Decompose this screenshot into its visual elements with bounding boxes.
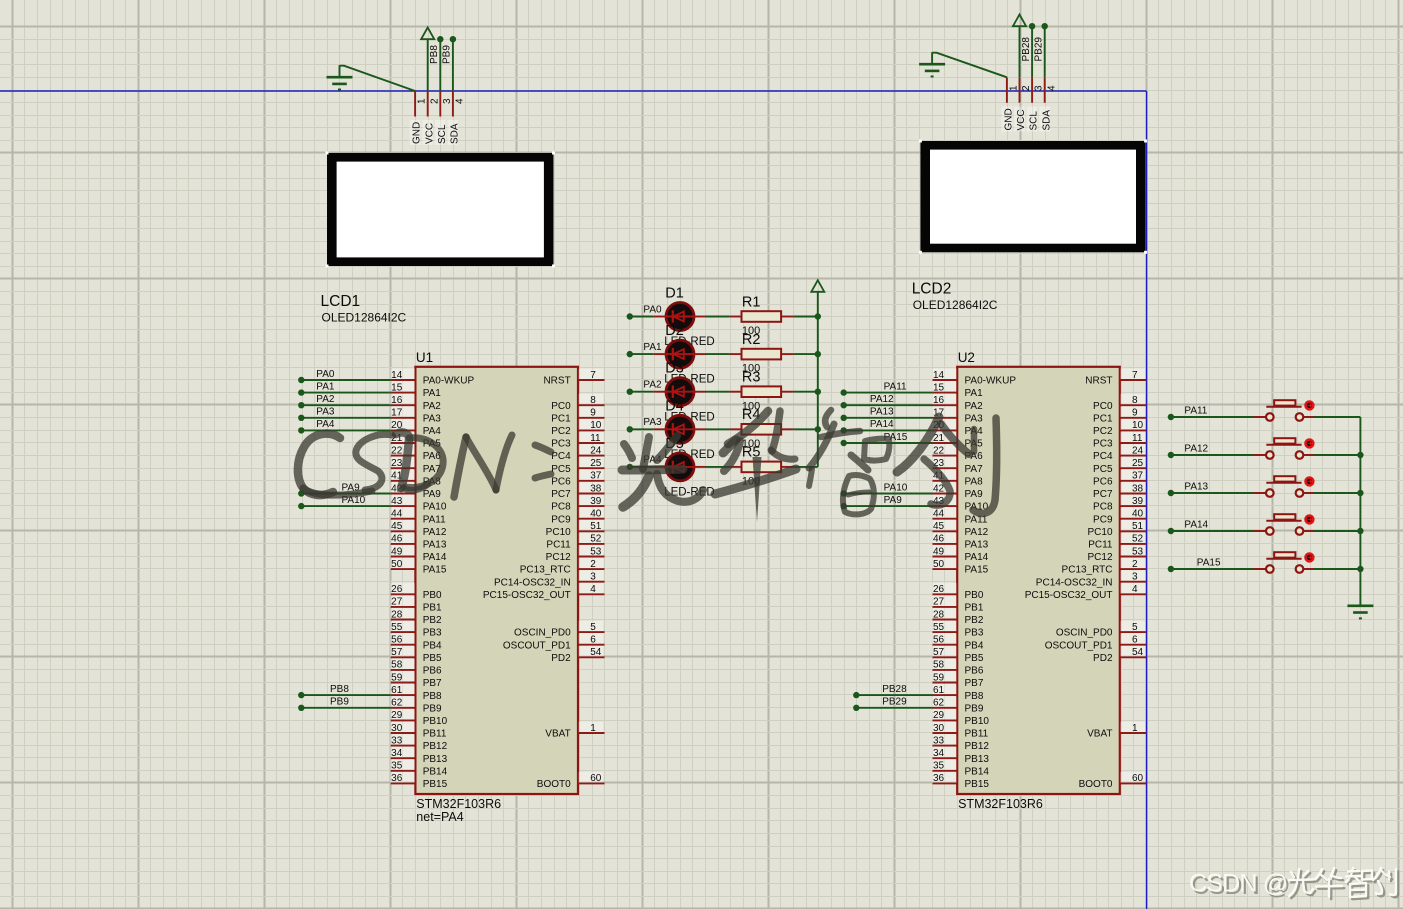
svg-text:CSDN @: CSDN @ — [1189, 870, 1287, 898]
U1 pin 17 PA3 — [390, 407, 441, 425]
U2 pin 9 PC1 — [1093, 407, 1146, 425]
svg-text:OLED12864I2C: OLED12864I2C — [322, 311, 407, 325]
U2 pin 3 PC14-OSC32_IN — [1036, 570, 1147, 588]
svg-text:PB4: PB4 — [965, 640, 984, 651]
wire net PA10 to U1 — [298, 503, 391, 509]
svg-text:PB1: PB1 — [423, 603, 442, 614]
U1 pin 9 PC1 — [551, 407, 604, 425]
svg-text:43: 43 — [391, 496, 403, 507]
svg-text:PA3: PA3 — [423, 413, 442, 424]
ground symbol (buttons) — [1347, 606, 1373, 619]
svg-text:PB8: PB8 — [965, 691, 984, 702]
wire net PA1 to U1 — [298, 389, 391, 395]
svg-text:36: 36 — [391, 773, 403, 784]
svg-text:51: 51 — [590, 521, 602, 532]
U2 pin 27 PB1 — [932, 596, 984, 614]
svg-text:4: 4 — [1132, 584, 1138, 595]
U2 pin 41 PA8 — [932, 470, 983, 488]
U2 pin 56 PB4 — [932, 633, 984, 651]
U1 pin 52 PC11 — [546, 533, 604, 551]
U1 pin 40 PC9 — [551, 507, 604, 525]
U1 pin 4 PC15-OSC32_OUT — [483, 583, 605, 601]
svg-text:26: 26 — [391, 584, 403, 595]
svg-text:57: 57 — [933, 647, 945, 658]
svg-text:U1: U1 — [416, 350, 433, 365]
svg-text:PA11: PA11 — [423, 514, 446, 525]
ground symbol near pin 1 — [327, 65, 353, 89]
svg-text:PB0: PB0 — [423, 590, 442, 601]
svg-text:34: 34 — [391, 748, 403, 759]
svg-text:3: 3 — [590, 572, 596, 583]
resistor R4 100 ohm — [706, 424, 793, 435]
U2 pin 45 PA12 — [932, 520, 989, 538]
svg-text:PB12: PB12 — [423, 741, 448, 752]
svg-text:5: 5 — [1132, 622, 1138, 633]
U1 pin 60 BOOT0 — [537, 772, 605, 790]
wire net PA14 to U2 — [841, 427, 933, 433]
U1 pin 23 PA7 — [390, 457, 441, 475]
svg-text:25: 25 — [590, 458, 602, 469]
svg-text:7: 7 — [590, 370, 596, 381]
U2 pin 61 PB8 — [932, 684, 984, 702]
U2 pin 6 OSCOUT_PD1 — [1045, 633, 1147, 651]
svg-text:51: 51 — [1132, 521, 1144, 532]
LCD pin 4 SDA — [1039, 77, 1057, 131]
svg-text:49: 49 — [933, 546, 945, 557]
svg-text:3: 3 — [1132, 572, 1138, 583]
svg-text:56: 56 — [933, 635, 945, 646]
svg-text:PB3: PB3 — [423, 628, 442, 639]
svg-text:PB15: PB15 — [965, 779, 990, 790]
wire net PB8 to U1 — [298, 692, 391, 698]
svg-text:PA12: PA12 — [1184, 444, 1208, 455]
svg-text:PB5: PB5 — [423, 653, 442, 664]
svg-text:30: 30 — [391, 723, 403, 734]
U1 pin 14 PA0-WKUP — [390, 369, 474, 387]
svg-text:PB29: PB29 — [882, 697, 907, 708]
LCD pin 4 SDA — [448, 91, 466, 145]
svg-text:PC11: PC11 — [1088, 540, 1113, 551]
svg-text:60: 60 — [1132, 773, 1144, 784]
resistor R2 100 ohm — [706, 349, 793, 360]
U2 pin 52 PC11 — [1088, 533, 1146, 551]
svg-text:PA10: PA10 — [423, 502, 447, 513]
svg-text:PB10: PB10 — [965, 716, 990, 727]
button operate marker (red) — [1306, 440, 1314, 448]
U1 pin 57 PB5 — [390, 646, 442, 664]
svg-text:PA1: PA1 — [643, 342, 662, 353]
svg-text:VCC: VCC — [424, 123, 435, 144]
U1 pin 39 PC8 — [551, 495, 604, 513]
svg-text:PA13: PA13 — [965, 540, 989, 551]
svg-text:9: 9 — [1132, 408, 1138, 419]
U2 pin 5 OSCIN_PD0 — [1056, 621, 1146, 639]
svg-text:58: 58 — [933, 660, 945, 671]
svg-text:PC2: PC2 — [1093, 426, 1113, 437]
U1 pin 51 PC10 — [546, 520, 605, 538]
U2 pin 40 PC9 — [1093, 507, 1146, 525]
svg-text:PC8: PC8 — [1093, 502, 1113, 513]
LCD pin 1 GND — [410, 91, 428, 145]
svg-text:PC9: PC9 — [1093, 514, 1113, 525]
svg-text:46: 46 — [391, 534, 403, 545]
svg-text:PC9: PC9 — [551, 514, 571, 525]
U1 pin 56 PB4 — [390, 633, 442, 651]
svg-text:15: 15 — [933, 382, 945, 393]
wire resistor R1 to power bus — [793, 313, 821, 319]
push button (PA15) — [1253, 552, 1317, 573]
svg-text:2: 2 — [429, 98, 440, 104]
U2 pin 29 PB10 — [932, 709, 989, 727]
U2 pin 22 PA6 — [932, 444, 983, 462]
wire net PA12 to U2 — [841, 402, 933, 408]
svg-text:PA1: PA1 — [423, 388, 442, 399]
svg-text:GND: GND — [1004, 108, 1015, 130]
svg-text:24: 24 — [1132, 445, 1144, 456]
svg-text:PA9: PA9 — [965, 489, 984, 500]
U1 pin 16 PA2 — [390, 394, 441, 412]
svg-text:2: 2 — [590, 559, 596, 570]
U1 pin 6 OSCOUT_PD1 — [503, 633, 605, 651]
power terminal (VCC arrow) — [421, 28, 434, 92]
U1 pin 11 PC3 — [551, 432, 604, 450]
svg-text:54: 54 — [590, 647, 602, 658]
svg-text:PB13: PB13 — [423, 754, 448, 765]
svg-text:PA14: PA14 — [870, 419, 894, 430]
svg-text:PC10: PC10 — [546, 527, 571, 538]
U1 pin 50 PA15 — [390, 558, 447, 576]
svg-text:6: 6 — [590, 635, 596, 646]
svg-text:45: 45 — [933, 521, 945, 532]
svg-text:PA3: PA3 — [965, 413, 984, 424]
svg-text:55: 55 — [391, 622, 403, 633]
button operate marker (red) — [1306, 554, 1314, 562]
svg-text:D3: D3 — [665, 361, 684, 377]
svg-text:OSCIN_PD0: OSCIN_PD0 — [1056, 628, 1113, 639]
svg-text:38: 38 — [590, 483, 602, 494]
svg-text:PA15: PA15 — [423, 565, 447, 576]
svg-text:PC12: PC12 — [1087, 552, 1112, 563]
svg-text:22: 22 — [391, 445, 403, 456]
svg-text:SDA: SDA — [1041, 110, 1052, 131]
svg-text:PC15-OSC32_OUT: PC15-OSC32_OUT — [483, 590, 571, 601]
svg-text:PC8: PC8 — [551, 502, 571, 513]
LCD pin 2 VCC — [422, 91, 440, 145]
wire net PA4 to LED D5 — [627, 464, 654, 470]
U2 pin 57 PB5 — [932, 646, 984, 664]
power terminal (VCC arrow) — [1013, 15, 1026, 78]
wire net PA13 to U2 — [841, 415, 933, 421]
U1 pin 8 PC0 — [551, 394, 604, 412]
wire resistor R2 to power bus — [793, 351, 821, 357]
U1 pin 1 VBAT — [545, 722, 604, 740]
svg-text:PB12: PB12 — [965, 741, 990, 752]
ground symbol near pin 1 — [919, 52, 945, 76]
U2 pin 10 PC2 — [1093, 419, 1146, 437]
svg-text:PB8: PB8 — [330, 684, 349, 695]
U2 pin 43 PA10 — [932, 495, 989, 513]
wire net PA15 to U2 — [841, 440, 933, 446]
svg-text:STM32F103R6: STM32F103R6 — [416, 797, 501, 811]
LCD pin 3 SCL — [1027, 77, 1045, 131]
svg-text:PC5: PC5 — [1093, 464, 1113, 475]
svg-text:11: 11 — [1132, 433, 1143, 444]
U1 pin 35 PB14 — [390, 760, 447, 778]
U1 pin 41 PA8 — [390, 470, 441, 488]
wire net PA14 to button — [1168, 528, 1254, 534]
svg-text:39: 39 — [1132, 496, 1144, 507]
U1 pin 15 PA1 — [390, 381, 441, 399]
wire button to ground bus — [1314, 528, 1364, 534]
svg-text:STM32F103R6: STM32F103R6 — [958, 797, 1043, 811]
svg-text:52: 52 — [590, 534, 602, 545]
svg-text:35: 35 — [933, 761, 945, 772]
svg-text:PB10: PB10 — [423, 716, 448, 727]
svg-text:PB11: PB11 — [965, 729, 989, 740]
svg-text:PA8: PA8 — [965, 476, 984, 487]
svg-text:PC3: PC3 — [551, 439, 571, 450]
svg-text:30: 30 — [933, 723, 945, 734]
svg-text:11: 11 — [590, 433, 601, 444]
svg-text:50: 50 — [933, 559, 945, 570]
U1 pin 5 OSCIN_PD0 — [514, 621, 604, 639]
svg-text:PC0: PC0 — [551, 401, 571, 412]
U1 pin 49 PA14 — [390, 545, 447, 563]
svg-text:62: 62 — [391, 698, 403, 709]
wire net PA0 to U1 — [298, 377, 391, 383]
svg-text:R2: R2 — [742, 332, 761, 348]
svg-text:PB15: PB15 — [423, 779, 448, 790]
U1 pin 22 PA6 — [390, 444, 441, 462]
svg-text:PB9: PB9 — [330, 697, 349, 708]
svg-text:PC14-OSC32_IN: PC14-OSC32_IN — [494, 577, 571, 588]
wire net PA0 to LED D1 — [627, 313, 654, 319]
U1 pin 38 PC7 — [551, 482, 604, 500]
svg-text:2: 2 — [1021, 85, 1032, 91]
svg-text:2: 2 — [1132, 559, 1138, 570]
svg-text:PC1: PC1 — [1093, 413, 1113, 424]
svg-text:40: 40 — [590, 509, 602, 520]
svg-text:8: 8 — [590, 395, 596, 406]
svg-text:PB6: PB6 — [423, 666, 442, 677]
svg-text:PA14: PA14 — [423, 552, 447, 563]
svg-text:PB1: PB1 — [965, 603, 984, 614]
wire net PA9 to U2 — [841, 503, 933, 509]
U2 pin 24 PC4 — [1093, 444, 1146, 462]
svg-text:NRST: NRST — [1085, 376, 1112, 387]
svg-text:PC1: PC1 — [551, 413, 571, 424]
svg-text:BOOT0: BOOT0 — [537, 779, 571, 790]
svg-text:PC13_RTC: PC13_RTC — [520, 565, 571, 576]
wire resistor R4 to power bus — [793, 426, 821, 432]
U1 pin 58 PB6 — [390, 659, 442, 677]
svg-text:PA0: PA0 — [643, 304, 662, 315]
U1 pin 45 PA12 — [390, 520, 447, 538]
U1 pin 29 PB10 — [390, 709, 447, 727]
wire net PB28 to U2 — [853, 692, 932, 698]
svg-text:PA0-WKUP: PA0-WKUP — [965, 376, 1017, 387]
wire net PA9 to U1 — [298, 490, 391, 496]
wire net PA2 to LED D3 — [627, 389, 654, 395]
wire resistor R3 to power bus — [793, 389, 821, 395]
svg-text:1: 1 — [1009, 85, 1020, 91]
U1 pin 37 PC6 — [551, 470, 604, 488]
svg-text:PB8: PB8 — [423, 691, 442, 702]
LCD display LCD1 (OLED12864I2C) — [326, 152, 556, 268]
svg-text:33: 33 — [933, 735, 945, 746]
svg-text:23: 23 — [391, 458, 403, 469]
svg-text:PA14: PA14 — [965, 552, 989, 563]
wire net PA3 to LED D4 — [627, 426, 654, 432]
U2 pin 17 PA3 — [932, 407, 983, 425]
svg-text:PC7: PC7 — [551, 489, 571, 500]
wire net PA1 to LED D2 — [627, 351, 654, 357]
svg-text:LCD1: LCD1 — [321, 293, 361, 310]
U2 pin 1 VBAT — [1087, 722, 1146, 740]
wire button to ground bus — [1314, 416, 1361, 418]
svg-text:PC2: PC2 — [551, 426, 571, 437]
U2 pin 46 PA13 — [932, 533, 989, 551]
svg-text:4: 4 — [455, 98, 466, 104]
wire PB8 to LCD pin 3 (SCL) — [437, 36, 443, 91]
U1 pin 43 PA10 — [390, 495, 447, 513]
U1 pin 7 NRST — [543, 369, 604, 387]
U2 pin 23 PA7 — [932, 457, 983, 475]
button operate marker (red) — [1306, 478, 1314, 486]
svg-text:PB8: PB8 — [429, 45, 440, 64]
svg-text:PC4: PC4 — [1093, 451, 1113, 462]
U2 pin 37 PC6 — [1093, 470, 1146, 488]
svg-text:R1: R1 — [742, 294, 761, 310]
U1 pin 30 PB11 — [390, 722, 447, 740]
svg-text:14: 14 — [933, 370, 945, 381]
svg-text:PA1: PA1 — [965, 388, 984, 399]
U2 pin 59 PB7 — [932, 671, 984, 689]
U1 pin 54 PD2 — [551, 646, 604, 664]
svg-text:54: 54 — [1132, 647, 1144, 658]
U1 pin 61 PB8 — [390, 684, 442, 702]
U2 pin 38 PC7 — [1093, 482, 1146, 500]
svg-text:PA11: PA11 — [884, 381, 907, 392]
U2 pin 58 PB6 — [932, 659, 984, 677]
svg-text:D4: D4 — [665, 398, 684, 414]
svg-text:52: 52 — [1132, 534, 1144, 545]
vertical power bus wire — [817, 292, 819, 467]
svg-text:PB0: PB0 — [965, 590, 984, 601]
U1 pin 55 PB3 — [390, 621, 442, 639]
svg-text:PB5: PB5 — [965, 653, 984, 664]
U2 pin 42 PA9 — [932, 482, 983, 500]
svg-text:56: 56 — [391, 635, 403, 646]
U2 pin 28 PB2 — [932, 608, 984, 626]
U1 pin 36 PB15 — [390, 772, 447, 790]
svg-text:37: 37 — [1132, 471, 1144, 482]
svg-text:58: 58 — [391, 660, 403, 671]
svg-text:PA12: PA12 — [965, 527, 989, 538]
wire net PA11 to button — [1168, 414, 1254, 420]
svg-text:PB9: PB9 — [423, 703, 442, 714]
wire button to ground bus — [1314, 452, 1364, 458]
svg-text:57: 57 — [391, 647, 403, 658]
svg-text:9: 9 — [590, 408, 596, 419]
LCD pin 2 VCC — [1014, 77, 1032, 131]
U1 pin 24 PC4 — [551, 444, 604, 462]
svg-text:59: 59 — [391, 672, 403, 683]
svg-text:PA3: PA3 — [643, 417, 662, 428]
svg-text:1: 1 — [417, 98, 428, 104]
svg-text:7: 7 — [1132, 370, 1138, 381]
vertical ground bus wire (buttons) — [1359, 417, 1361, 606]
U1 pin 62 PB9 — [390, 697, 442, 715]
U2 pin 36 PB15 — [932, 772, 989, 790]
LED D2 (LED-RED) — [653, 340, 706, 368]
push button (PA12) — [1253, 438, 1317, 459]
U2 pin 2 PC13_RTC — [1062, 558, 1147, 576]
svg-text:PA15: PA15 — [965, 565, 989, 576]
wire PB29 to LCD pin 4 (SDA) — [1042, 23, 1048, 77]
svg-text:PB14: PB14 — [965, 766, 990, 777]
U2 pin 8 PC0 — [1093, 394, 1146, 412]
svg-text:PA0-WKUP: PA0-WKUP — [423, 376, 475, 387]
svg-text:PA12: PA12 — [423, 527, 447, 538]
U1 pin 3 PC14-OSC32_IN — [494, 570, 605, 588]
svg-text:net=PA4: net=PA4 — [416, 810, 463, 824]
svg-text:PA1: PA1 — [316, 381, 335, 392]
svg-text:26: 26 — [933, 584, 945, 595]
power terminal (VCC arrow) for LED ladder — [811, 280, 824, 292]
watermark: CSDN @ guang hua zhi chuang (bottom right, embossed) — [1189, 870, 1290, 900]
watermark: CSDN : guang hua zhi chuang (calligraphy overlay) — [298, 410, 997, 522]
svg-text:62: 62 — [933, 698, 945, 709]
svg-text:PB4: PB4 — [423, 640, 442, 651]
svg-text:PD2: PD2 — [1093, 653, 1113, 664]
svg-text:39: 39 — [590, 496, 602, 507]
svg-text:SDA: SDA — [450, 123, 461, 144]
svg-text:PB11: PB11 — [423, 729, 447, 740]
svg-text:PA4: PA4 — [423, 426, 442, 437]
svg-text:PC6: PC6 — [1093, 476, 1113, 487]
svg-text:40: 40 — [1132, 509, 1144, 520]
U2 pin 4 PC15-OSC32_OUT — [1025, 583, 1147, 601]
svg-text:PB7: PB7 — [423, 678, 442, 689]
svg-text:46: 46 — [933, 534, 945, 545]
svg-text:PA7: PA7 — [965, 464, 984, 475]
push button (PA13) — [1253, 476, 1317, 497]
wire net PA13 to button — [1168, 490, 1254, 496]
svg-text:VBAT: VBAT — [545, 729, 570, 740]
svg-text:PC15-OSC32_OUT: PC15-OSC32_OUT — [1025, 590, 1113, 601]
svg-text:50: 50 — [391, 559, 403, 570]
wire net PB9 to U1 — [298, 705, 391, 711]
svg-text:PA2: PA2 — [316, 394, 335, 405]
svg-text:NRST: NRST — [543, 376, 570, 387]
U1 pin 33 PB12 — [390, 734, 447, 752]
wire: ground to LCD pin 1 (GND) — [932, 53, 1007, 78]
svg-text:U2: U2 — [958, 350, 975, 365]
svg-text:35: 35 — [391, 761, 403, 772]
svg-text:3: 3 — [442, 98, 453, 104]
svg-text:44: 44 — [933, 509, 945, 520]
LED D4 (LED-RED) — [653, 415, 706, 443]
microcontroller U1 STM32F103R6 body — [415, 367, 578, 794]
svg-text:PD2: PD2 — [551, 653, 571, 664]
svg-text:PC12: PC12 — [546, 552, 571, 563]
U2 pin 50 PA15 — [932, 558, 989, 576]
svg-text:PB2: PB2 — [965, 615, 984, 626]
U1 pin 10 PC2 — [551, 419, 604, 437]
U2 pin 16 PA2 — [932, 394, 983, 412]
U2 pin 34 PB13 — [932, 747, 989, 765]
